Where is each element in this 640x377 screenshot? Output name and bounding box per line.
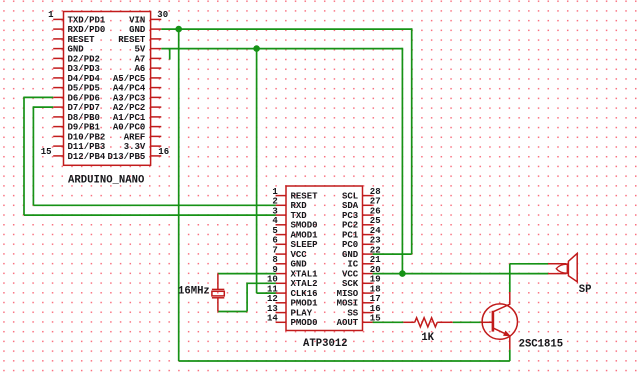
svg-text:6: 6: [272, 236, 277, 246]
svg-text:1: 1: [272, 187, 278, 197]
svg-text:A6: A6: [134, 64, 145, 74]
svg-text:SS: SS: [347, 309, 358, 319]
svg-text:RESET: RESET: [118, 35, 146, 45]
IC U2 ATP3012: [267, 186, 381, 350]
svg-text:23: 23: [370, 236, 381, 246]
svg-text:AREF: AREF: [124, 132, 146, 142]
svg-text:D5/PD5: D5/PD5: [68, 84, 100, 94]
svg-text:PMOD0: PMOD0: [291, 318, 318, 328]
svg-text:D11/PB3: D11/PB3: [68, 142, 106, 152]
svg-text:24: 24: [370, 226, 381, 236]
svg-text:A0/PC0: A0/PC0: [113, 123, 145, 133]
svg-text:19: 19: [370, 275, 381, 285]
svg-text:1: 1: [48, 10, 54, 20]
svg-text:MOSI: MOSI: [337, 299, 359, 309]
svg-text:27: 27: [370, 197, 381, 207]
U1 name label ARDUINO_NANO: [68, 174, 144, 186]
svg-text:5: 5: [272, 226, 277, 236]
svg-text:VIN: VIN: [129, 15, 145, 25]
U2 left pin names: [291, 192, 319, 329]
svg-text:3.3V: 3.3V: [124, 142, 146, 152]
wire GND net: down left side to bottom rail and to transistor emitter: [179, 29, 510, 361]
svg-text:GND: GND: [342, 250, 359, 260]
U2 left pin numbers 1-14: [267, 187, 278, 324]
svg-text:A5/PC5: A5/PC5: [113, 74, 145, 84]
wire D7/PD7 to ATP RXD pin2: [33, 106, 275, 205]
value label 16MHz: [178, 286, 210, 298]
svg-text:A4/PC4: A4/PC4: [113, 84, 146, 94]
resistor R1 1K: [403, 318, 452, 327]
svg-text:SCL: SCL: [342, 192, 358, 202]
U1 pin number 16: [158, 147, 169, 157]
U2 body box: [286, 186, 363, 331]
svg-text:IC: IC: [347, 260, 358, 270]
U1 pin number 1: [48, 10, 54, 20]
svg-text:PC0: PC0: [342, 240, 358, 250]
svg-text:RESET: RESET: [68, 35, 96, 45]
svg-text:TXD/PD1: TXD/PD1: [68, 15, 106, 25]
U2 right pin names: [337, 192, 359, 329]
svg-text:SLEEP: SLEEP: [291, 240, 319, 250]
svg-text:2SC1815: 2SC1815: [519, 338, 564, 350]
svg-text:26: 26: [370, 206, 381, 216]
svg-text:30: 30: [157, 10, 168, 20]
wire resistor R1 to transistor base: [453, 321, 481, 323]
svg-text:4: 4: [272, 216, 278, 226]
svg-text:12: 12: [267, 294, 278, 304]
svg-text:RXD/PD0: RXD/PD0: [68, 25, 106, 35]
U1 pin number 15: [41, 147, 52, 157]
svg-text:XTAL1: XTAL1: [291, 270, 319, 280]
junction dot VCC at ATP pin20 row: [399, 270, 406, 277]
svg-text:ARDUINO_NANO: ARDUINO_NANO: [68, 174, 144, 186]
svg-text:16MHz: 16MHz: [178, 286, 210, 298]
IC U1 ARDUINO_NANO: [41, 10, 169, 186]
wire XTAL2 pin10 to crystal bottom: [218, 283, 276, 312]
svg-text:D13/PB5: D13/PB5: [107, 152, 145, 162]
svg-text:16: 16: [370, 304, 381, 314]
svg-text:D9/PB1: D9/PB1: [68, 123, 101, 133]
svg-text:VCC: VCC: [342, 270, 359, 280]
junction dot 5V at x=256.6: [253, 45, 260, 52]
wire 5V net: Arduino 5V pin right then down to ATP pin20 VCC junction: [161, 48, 402, 274]
svg-text:RXD: RXD: [291, 201, 308, 211]
svg-text:D10/PB2: D10/PB2: [68, 132, 106, 142]
svg-text:PLAY: PLAY: [291, 309, 313, 319]
svg-text:SDA: SDA: [342, 201, 359, 211]
U2 right pin numbers 28-15: [370, 187, 381, 324]
svg-text:16: 16: [158, 147, 169, 157]
svg-text:1K: 1K: [421, 332, 434, 344]
svg-text:GND: GND: [129, 25, 146, 35]
U1 pin number 30: [157, 10, 168, 20]
wire speaker upper terminal to transistor collector: [510, 264, 549, 292]
svg-text:14: 14: [267, 314, 278, 324]
svg-text:D7/PD7: D7/PD7: [68, 103, 100, 113]
svg-text:8: 8: [272, 255, 277, 265]
svg-text:25: 25: [370, 216, 381, 226]
svg-text:PC2: PC2: [342, 221, 358, 231]
svg-text:CLK16: CLK16: [291, 289, 318, 299]
svg-text:TXD: TXD: [291, 211, 308, 221]
svg-text:D8/PB0: D8/PB0: [68, 113, 100, 123]
svg-text:AMOD1: AMOD1: [291, 231, 319, 241]
U1 left pin stubs: [53, 19, 63, 156]
svg-text:D3/PD3: D3/PD3: [68, 64, 100, 74]
svg-text:28: 28: [370, 187, 381, 197]
svg-text:PC1: PC1: [342, 231, 359, 241]
U1 right pin stubs: [151, 19, 162, 156]
svg-text:PMOD1: PMOD1: [291, 299, 319, 309]
svg-text:A3/PC3: A3/PC3: [113, 93, 145, 103]
svg-text:SMOD0: SMOD0: [291, 221, 318, 231]
wire GND net: Arduino GND pin right then down to ATP pin22 GND: [161, 28, 411, 254]
wire VCC net: ATP pin20 to speaker lower terminal: [373, 273, 549, 275]
wire AOUT pin15 to resistor R1: [373, 321, 404, 323]
svg-text:A7: A7: [134, 54, 145, 64]
short green stub below 5V wire: [169, 49, 171, 60]
svg-text:ATP3012: ATP3012: [303, 338, 348, 350]
svg-text:5V: 5V: [134, 45, 145, 55]
svg-text:15: 15: [41, 147, 52, 157]
svg-text:D2/PD2: D2/PD2: [68, 54, 100, 64]
svg-text:RESET: RESET: [291, 192, 319, 202]
svg-text:A2/PC2: A2/PC2: [113, 103, 145, 113]
U1 left pin names: [68, 15, 106, 162]
svg-text:MISO: MISO: [337, 289, 359, 299]
svg-text:18: 18: [370, 284, 381, 294]
wire D6/PD6 to ATP TXD pin3: [24, 97, 276, 216]
svg-text:XTAL2: XTAL2: [291, 279, 318, 289]
U1 body box: [64, 12, 151, 166]
svg-text:SP: SP: [579, 284, 592, 296]
svg-text:D4/PD4: D4/PD4: [68, 74, 101, 84]
wire XTAL1 pin9 to crystal top: [218, 273, 276, 275]
svg-text:7: 7: [272, 245, 277, 255]
U2 name label ATP3012: [303, 338, 348, 350]
svg-text:SCK: SCK: [342, 279, 359, 289]
svg-text:PC3: PC3: [342, 211, 358, 221]
svg-text:D6/PD6: D6/PD6: [68, 93, 100, 103]
svg-text:21: 21: [370, 255, 381, 265]
svg-text:13: 13: [267, 304, 278, 314]
svg-text:GND: GND: [68, 45, 85, 55]
U2 left pin stubs: [276, 196, 286, 323]
speaker SP: [548, 253, 577, 281]
svg-text:D12/PB4: D12/PB4: [68, 152, 106, 162]
name label SP: [579, 284, 592, 296]
svg-text:GND: GND: [291, 260, 308, 270]
svg-text:AOUT: AOUT: [337, 318, 359, 328]
name label 2SC1815: [519, 338, 564, 350]
junction dot GND at x=178.7: [175, 26, 182, 33]
U1 right pin names: [107, 15, 145, 162]
svg-text:VCC: VCC: [291, 250, 308, 260]
wire 5V net: down to ATP pin11 CLK16: [257, 49, 276, 294]
svg-text:17: 17: [370, 294, 381, 304]
svg-text:A1/PC1: A1/PC1: [113, 113, 146, 123]
U2 right pin stubs: [363, 196, 373, 323]
value label 1K: [421, 332, 434, 344]
crystal Q1 16MHz: [212, 274, 224, 312]
transistor T1 2SC1815: [481, 292, 518, 350]
